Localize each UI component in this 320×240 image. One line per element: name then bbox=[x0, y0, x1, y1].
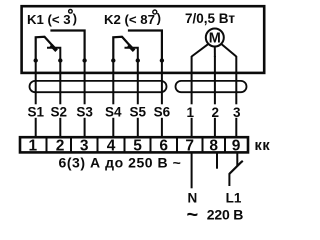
wire motor 1 upper bbox=[191, 56, 193, 104]
switch K1 arm tip blob bbox=[51, 45, 57, 51]
svg-text:3: 3 bbox=[233, 105, 241, 120]
svg-text:S6: S6 bbox=[154, 105, 171, 120]
actuator housing box bbox=[22, 6, 265, 73]
wire S1 upper bbox=[35, 61, 37, 105]
wire motor 1 lower bbox=[191, 118, 193, 138]
svg-text:2: 2 bbox=[56, 137, 65, 154]
node S3 junction dot bbox=[82, 58, 86, 62]
svg-text:K1 (< 3: K1 (< 3 bbox=[27, 12, 71, 27]
switch K1 contact bar to S2 bbox=[47, 48, 60, 59]
switch K2 arm (common S4) bbox=[113, 37, 133, 59]
switch K1 arm (common S1) bbox=[36, 37, 56, 59]
terminal divider 6|7 bbox=[176, 137, 178, 152]
wire L1 lower bbox=[228, 174, 230, 187]
svg-text:1: 1 bbox=[28, 137, 37, 154]
terminal divider 7|8 bbox=[202, 137, 204, 152]
node S1 junction dot bbox=[34, 58, 38, 62]
svg-text:4: 4 bbox=[107, 137, 116, 154]
wire S3 lower bbox=[84, 118, 86, 138]
svg-text:1: 1 bbox=[187, 105, 195, 120]
svg-text:3: 3 bbox=[80, 137, 89, 154]
svg-text:220 В: 220 В bbox=[207, 207, 243, 223]
motor lead to pin 3 bbox=[221, 44, 236, 57]
svg-text:S5: S5 bbox=[130, 105, 147, 120]
wire S1 lower bbox=[35, 118, 37, 138]
switch K2 contact line to S6 bbox=[128, 31, 162, 60]
switch K2 arm tip blob bbox=[129, 45, 135, 51]
motor lead to pin 2 bbox=[214, 46, 216, 57]
node S6 junction dot bbox=[160, 58, 164, 62]
wire motor 3 lower bbox=[235, 118, 237, 138]
terminal divider 5|6 bbox=[150, 137, 152, 152]
node S5 junction dot bbox=[136, 58, 140, 62]
wire S3 upper bbox=[84, 61, 86, 105]
svg-text:кк: кк bbox=[255, 138, 271, 154]
wire S4 lower bbox=[112, 118, 114, 138]
terminal divider 1|2 bbox=[46, 137, 48, 152]
wire L1 from terminal 9 bbox=[236, 153, 238, 166]
svg-text:7: 7 bbox=[185, 137, 194, 154]
wire S4 upper bbox=[112, 61, 114, 105]
svg-text:K2 (< 87: K2 (< 87 bbox=[104, 12, 155, 27]
svg-text:~: ~ bbox=[187, 204, 199, 226]
wire stub terminal 8 bbox=[216, 153, 218, 168]
wire S2 lower bbox=[59, 118, 61, 138]
switch K2 contact bar to S5 bbox=[125, 48, 138, 59]
terminal divider 4|5 bbox=[124, 137, 126, 152]
wire motor 2 lower bbox=[214, 118, 216, 138]
wire S5 upper bbox=[137, 61, 139, 105]
svg-text:6: 6 bbox=[159, 137, 168, 154]
motor U1 circle bbox=[206, 29, 224, 47]
svg-text:6(3) А до 250 В ~: 6(3) А до 250 В ~ bbox=[59, 154, 182, 170]
svg-text:2: 2 bbox=[211, 105, 219, 120]
svg-text:8: 8 bbox=[209, 137, 218, 154]
node S2 junction dot bbox=[58, 58, 62, 62]
svg-text:S4: S4 bbox=[105, 105, 122, 120]
svg-text:M: M bbox=[209, 31, 221, 47]
wire S6 lower bbox=[161, 118, 163, 138]
terminal strip outer box bbox=[20, 137, 248, 152]
terminal divider 3|4 bbox=[97, 137, 99, 152]
switch blade in L1 line bbox=[229, 161, 243, 174]
svg-text:L1: L1 bbox=[226, 191, 242, 206]
cable bushing pill left bbox=[30, 81, 167, 92]
svg-text:): ) bbox=[157, 11, 161, 26]
cable bushing pill right bbox=[176, 81, 247, 92]
node S4 junction dot bbox=[111, 58, 115, 62]
svg-text:7/0,5 Вт: 7/0,5 Вт bbox=[185, 11, 235, 26]
svg-text:5: 5 bbox=[133, 137, 142, 154]
wire motor 2 upper bbox=[214, 56, 216, 104]
svg-text:S1: S1 bbox=[27, 105, 44, 120]
svg-text:9: 9 bbox=[232, 137, 241, 154]
svg-text:S3: S3 bbox=[76, 105, 93, 120]
terminal divider 8|9 bbox=[224, 137, 226, 152]
wire S2 upper bbox=[59, 61, 61, 105]
wire N from terminal 7 bbox=[191, 153, 193, 188]
switch K1 contact line to S3 bbox=[50, 31, 84, 60]
wire motor 3 upper bbox=[235, 56, 237, 104]
terminal divider 2|3 bbox=[70, 137, 72, 152]
wire S5 lower bbox=[137, 118, 139, 138]
wire S6 upper bbox=[161, 61, 163, 105]
motor lead to pin 1 bbox=[192, 44, 209, 57]
svg-text:): ) bbox=[73, 11, 77, 26]
svg-text:S2: S2 bbox=[51, 105, 68, 120]
